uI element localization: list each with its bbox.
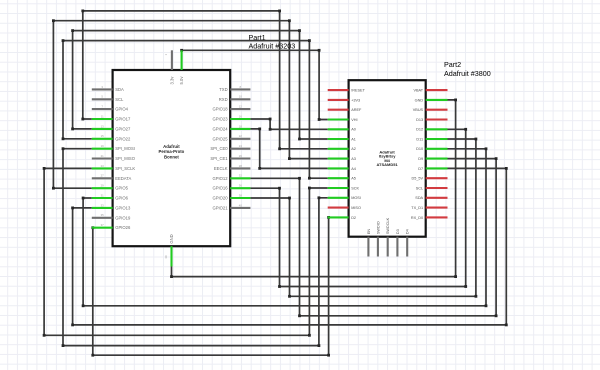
pin U1 SPI_CE0 (pin 24) [210, 144, 250, 151]
junction at 5.0V pin wire corner [180, 49, 183, 52]
svg-text:MOSI: MOSI [351, 196, 361, 200]
wire SPI_SCLK to SCK [43, 167, 328, 337]
svg-text:EECLK: EECLK [214, 166, 228, 171]
svg-text:D2: D2 [351, 216, 356, 220]
svg-text:GPIO26: GPIO26 [115, 225, 131, 230]
pin U1 SPI_MISO (pin 21) [92, 154, 136, 161]
svg-text:33: 33 [101, 203, 105, 207]
svg-text:A1: A1 [351, 137, 356, 141]
wire GPIO26 to D2 [91, 216, 330, 357]
svg-text:GPIO23: GPIO23 [212, 117, 228, 122]
svg-text:SPI_CE0: SPI_CE0 [210, 146, 228, 151]
pin U2 TX_D1 [411, 206, 447, 210]
pin U2 MISO [328, 206, 361, 210]
svg-text:SDA: SDA [415, 196, 423, 200]
svg-text:A4: A4 [351, 167, 356, 171]
wire GPIO24 to A4 [250, 128, 327, 170]
wire 5.0V to VHI [182, 49, 328, 121]
pin U2 RX_D0 [411, 216, 448, 220]
wire GPIO12 to D9 [250, 157, 497, 317]
pin U1 SDA (pin 3) [92, 85, 124, 92]
svg-text:GPIO4: GPIO4 [115, 107, 128, 112]
svg-text:Part2: Part2 [444, 60, 461, 69]
pin U2 D7 [418, 167, 447, 171]
svg-text:15: 15 [101, 134, 105, 138]
pin U2 D11 [416, 137, 447, 141]
pin U1 GPIO27 (pin 13) [92, 124, 131, 131]
pin U2 MOSI [328, 196, 361, 200]
pin U1 SPI_MOSI (pin 19) [92, 144, 135, 151]
pin U1 EEDATA (pin 27) [92, 174, 132, 181]
pin U1 GPIO13 (pin 33) [92, 203, 131, 210]
pin U2 A2 [328, 147, 356, 151]
svg-text:A3: A3 [351, 157, 356, 161]
svg-text:GPIO20: GPIO20 [212, 196, 228, 201]
pin U1 GPIO16 (pin 36) [212, 184, 250, 191]
pin U2 AREF [328, 108, 362, 112]
svg-text:SDA: SDA [115, 87, 124, 92]
svg-text:GPIO16: GPIO16 [212, 186, 228, 191]
pin U1 GPIO24 (pin 18) [212, 124, 250, 131]
IC U1 Adafruit Perma-Proto Bonnet (Part1 Adafruit #3203) [113, 70, 231, 246]
wire GND to GND [170, 99, 457, 279]
pin U1 GPIO21 (pin 40) [212, 203, 250, 210]
svg-text:Bonnet: Bonnet [164, 154, 179, 159]
svg-text:A5: A5 [351, 177, 356, 181]
svg-text:TX_D1: TX_D1 [411, 206, 423, 210]
svg-text:VBUS: VBUS [413, 108, 424, 112]
svg-text:GPIO13: GPIO13 [115, 205, 131, 210]
svg-text:A2: A2 [351, 147, 356, 151]
pin U1 GPIO12 (pin 32) [212, 174, 250, 181]
svg-text:VHI: VHI [351, 118, 357, 122]
svg-text:D9: D9 [418, 157, 423, 161]
svg-text:Part1: Part1 [249, 33, 266, 42]
pin U1 GPIO4 (pin 7) [92, 105, 129, 112]
pin U2 !RESET [328, 89, 366, 93]
pin U2 SWDCLK (bottom) [386, 217, 390, 256]
svg-text:TXD: TXD [219, 87, 227, 92]
svg-text:GPIO22: GPIO22 [115, 136, 131, 141]
svg-text:27: 27 [101, 174, 105, 178]
pin U1 SCL (pin 5) [92, 95, 124, 102]
wire GPIO5 to A3 [52, 19, 328, 189]
svg-text:VBAT: VBAT [413, 89, 423, 93]
svg-text:SPI_MISO: SPI_MISO [115, 156, 136, 161]
pin U1 SPI_CE1 (pin 26) [210, 154, 250, 161]
svg-text:ATSAMD51: ATSAMD51 [376, 162, 398, 167]
svg-text:23: 23 [101, 164, 105, 168]
IC U2 Adafruit ItsyBitsy M4 ATSAMD51 (Part2 Adafruit #3800) [349, 80, 426, 237]
pin U2 D12 [416, 128, 447, 132]
svg-text:5.0v: 5.0v [179, 76, 184, 85]
svg-text:D10: D10 [416, 147, 423, 151]
svg-text:SPI_SCLK: SPI_SCLK [115, 166, 135, 171]
svg-text:MISO: MISO [351, 206, 361, 210]
pin U2 A3 [328, 157, 356, 161]
svg-text:28: 28 [239, 164, 243, 168]
pin U2 +3V3 [328, 98, 360, 102]
pin U2 D3 (bottom) [396, 229, 400, 256]
svg-text:GPIO6: GPIO6 [115, 196, 128, 201]
svg-text:24: 24 [239, 144, 243, 148]
svg-text:32: 32 [239, 174, 243, 178]
annotation Part2 label [444, 60, 491, 78]
svg-text:37: 37 [101, 223, 105, 227]
svg-text:35: 35 [101, 213, 105, 217]
pin U1 GPIO23 (pin 16) [212, 114, 250, 121]
svg-text:EN: EN [367, 229, 371, 235]
svg-text:GPIO17: GPIO17 [115, 117, 131, 122]
pin U1 3.3v (power) [164, 50, 175, 84]
pin U1 GPIO25 (pin 22) [212, 134, 250, 141]
svg-text:SWDIO: SWDIO [376, 221, 380, 234]
pin U2 EN (bottom) [367, 229, 371, 257]
svg-text:SPI_CE1: SPI_CE1 [210, 156, 228, 161]
pin U1 GPIO22 (pin 15) [92, 134, 131, 141]
svg-text:+3V3: +3V3 [351, 98, 360, 102]
svg-text:Adafruit #3203: Adafruit #3203 [249, 42, 296, 51]
svg-text:16: 16 [239, 114, 243, 118]
pin U1 5.0v (power, connected) [179, 50, 184, 84]
pin U2 SCK [328, 186, 360, 190]
svg-text:RX_D0: RX_D0 [411, 216, 423, 220]
svg-text:Adafruit #3800: Adafruit #3800 [444, 69, 491, 78]
svg-text:39: 39 [164, 255, 168, 259]
pin U1 GPIO18 (pin 12) [212, 105, 250, 112]
svg-text:GPIO21: GPIO21 [212, 205, 228, 210]
svg-text:SCL: SCL [115, 97, 124, 102]
wire GPIO27 to A1 [71, 29, 328, 140]
svg-text:13: 13 [101, 124, 105, 128]
pin U2 A4 [328, 167, 356, 171]
pin U2 VHI [328, 118, 358, 122]
svg-text:GPIO19: GPIO19 [115, 215, 131, 220]
svg-text:GPIO12: GPIO12 [212, 176, 228, 181]
pin U2 D10 [416, 147, 447, 151]
svg-text:D4: D4 [406, 229, 410, 234]
svg-text:GPIO27: GPIO27 [115, 126, 131, 131]
pin U2 A1 [328, 137, 356, 141]
svg-text:GND: GND [169, 234, 174, 243]
svg-text:38: 38 [239, 193, 243, 197]
svg-text:18: 18 [239, 124, 243, 128]
svg-text:26: 26 [239, 154, 243, 158]
wire GPIO23 to A0 [250, 118, 327, 131]
wire GPIO6 to D10 [82, 147, 488, 307]
pin U1 GND (ground, connected) [164, 234, 174, 266]
svg-text:D3: D3 [396, 229, 400, 234]
svg-text:SPI_MOSI: SPI_MOSI [115, 146, 135, 151]
svg-text:EEDATA: EEDATA [115, 176, 131, 181]
pin U2 A0 [328, 128, 356, 132]
wire GPIO22 to A5 [62, 39, 328, 179]
svg-text:D7: D7 [418, 167, 423, 171]
svg-text:GND: GND [415, 98, 424, 102]
wire GPIO17 to A2 [81, 10, 327, 151]
pin U1 GPIO20 (pin 38) [212, 193, 250, 200]
svg-text:!RESET: !RESET [351, 89, 365, 93]
svg-text:A0: A0 [351, 128, 356, 132]
pin U2 D13 [416, 118, 447, 122]
svg-text:D13: D13 [416, 118, 423, 122]
pin U2 A5 [328, 177, 356, 181]
pin U2 SCL [416, 186, 448, 190]
svg-text:31: 31 [101, 193, 105, 197]
svg-text:D5_5V: D5_5V [411, 177, 423, 181]
pin U1 GPIO5 (pin 29) [92, 184, 129, 191]
svg-text:SCK: SCK [351, 186, 359, 190]
pin U2 SDA [415, 196, 447, 200]
svg-text:29: 29 [101, 184, 105, 188]
svg-text:12: 12 [239, 105, 243, 109]
pin U2 GND [415, 98, 448, 102]
pin U2 D9 [418, 157, 447, 161]
svg-text:GPIO25: GPIO25 [212, 136, 228, 141]
pin U1 TXD (pin 8) [219, 85, 250, 92]
pin U2 D5_5V [411, 177, 447, 181]
svg-text:SWDCLK: SWDCLK [386, 217, 390, 234]
pin U1 GPIO6 (pin 31) [92, 193, 129, 200]
pin U1 GPIO26 (pin 37) [92, 223, 131, 230]
svg-text:D11: D11 [416, 137, 423, 141]
svg-text:10: 10 [239, 95, 243, 99]
pin U2 D2 [328, 216, 356, 220]
pin U1 GPIO19 (pin 35) [92, 213, 131, 220]
svg-text:22: 22 [239, 134, 243, 138]
svg-text:AREF: AREF [351, 108, 362, 112]
pin U1 RXD (pin 10) [219, 95, 251, 102]
annotation Part1 label [249, 33, 296, 51]
pin U1 EECLK (pin 28) [214, 164, 251, 171]
svg-text:11: 11 [101, 114, 104, 118]
pin U2 SWDIO (bottom) [376, 221, 380, 256]
pin U1 SPI_SCLK (pin 23) [92, 164, 136, 171]
wire GPIO20 to D11 [250, 138, 477, 298]
svg-text:RXD: RXD [219, 97, 228, 102]
svg-text:GPIO18: GPIO18 [212, 107, 228, 112]
svg-text:D12: D12 [416, 128, 423, 132]
pin U2 VBUS [413, 108, 448, 112]
pin U1 GPIO17 (pin 11) [92, 114, 131, 121]
svg-text:21: 21 [101, 154, 105, 158]
svg-text:19: 19 [101, 144, 105, 148]
svg-text:40: 40 [239, 203, 243, 207]
pin U2 D4 (bottom) [406, 229, 410, 256]
wire SPI_MOSI to MOSI [62, 147, 328, 347]
wire GPIO13 to D7 [71, 167, 508, 326]
pin U2 VBAT [413, 89, 447, 93]
svg-text:3.3v: 3.3v [169, 76, 174, 85]
wire GPIO16 to D12 [250, 128, 467, 288]
svg-text:SCL: SCL [416, 186, 423, 190]
svg-text:GPIO5: GPIO5 [115, 186, 128, 191]
svg-text:GPIO24: GPIO24 [212, 126, 228, 131]
svg-text:36: 36 [239, 184, 243, 188]
